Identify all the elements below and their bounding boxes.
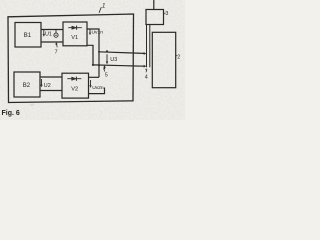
svg-text:B2: B2: [23, 83, 31, 89]
svg-text:U2: U2: [44, 83, 51, 89]
svg-text:V1: V1: [71, 35, 78, 41]
svg-text:2: 2: [177, 55, 180, 61]
svg-text:Fig. 6: Fig. 6: [2, 110, 20, 117]
svg-text:5: 5: [105, 73, 108, 79]
svg-text:U1: U1: [45, 31, 52, 37]
svg-text:Uv1n: Uv1n: [92, 29, 104, 35]
svg-text:3: 3: [165, 11, 168, 17]
svg-text:7: 7: [55, 50, 58, 56]
svg-text:1: 1: [102, 3, 105, 9]
svg-text:Uv2n: Uv2n: [92, 85, 104, 91]
svg-text:U3: U3: [110, 57, 117, 63]
svg-text:4: 4: [145, 74, 148, 80]
svg-text:B1: B1: [24, 33, 32, 39]
svg-text:V2: V2: [71, 87, 78, 93]
svg-text:7: 7: [145, 68, 148, 74]
